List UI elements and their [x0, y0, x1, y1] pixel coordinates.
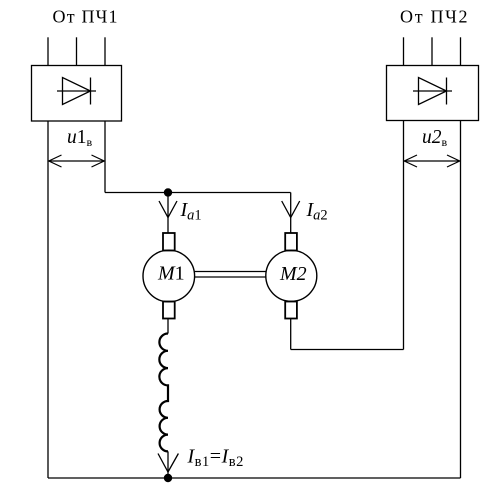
wire input UZ1 pin1	[47, 37, 49, 65]
wire UZ2 out right (to bottom bus)	[460, 121, 462, 479]
field winding L (coil)	[159, 334, 168, 452]
svg-text:M2: M2	[279, 263, 307, 285]
node junction dot bottom	[164, 474, 172, 482]
node junction dot	[164, 188, 172, 196]
arrow Iв	[158, 454, 178, 473]
svg-text:От ПЧ1: От ПЧ1	[53, 7, 119, 27]
wire M1 bottom to field winding	[167, 319, 169, 334]
wire input UZ2 pin1	[403, 37, 405, 65]
wire UZ1 out left (to bottom bus)	[47, 121, 49, 478]
wire input UZ2 pin2	[431, 37, 433, 65]
wire UZ1 out right	[104, 121, 106, 193]
wire UZ2 out left (to M2 loop)	[403, 121, 405, 350]
wire M2 bottom horizontal	[291, 349, 404, 351]
rectifier UZ2 box	[387, 66, 479, 121]
brush M1 bottom	[163, 302, 175, 319]
wire input UZ2 pin3	[460, 37, 462, 65]
wire input UZ1 pin3	[104, 37, 106, 65]
arrow Ia2	[282, 201, 300, 218]
wire to M1 armature	[167, 193, 169, 234]
wire to M2 armature	[290, 193, 292, 234]
diode D2	[413, 78, 452, 105]
dimension arrow u2	[404, 155, 459, 167]
svg-text:M1: M1	[157, 263, 185, 285]
wire M2 bottom down	[290, 319, 292, 350]
brush M2 top	[285, 233, 297, 251]
wire top bus to motors	[105, 192, 291, 194]
bottom bus wire	[48, 477, 461, 479]
rectifier UZ1 box	[32, 66, 122, 122]
diode D1	[57, 78, 96, 105]
motor M1	[143, 250, 195, 302]
brush M1 top	[163, 233, 175, 251]
arrow Ia1	[159, 201, 177, 218]
motor M2	[266, 250, 317, 301]
wire winding to bottom bus	[167, 451, 169, 478]
brush M2 bottom	[285, 302, 297, 319]
svg-text:От ПЧ2: От ПЧ2	[400, 7, 469, 27]
shaft coupling (double line)	[195, 271, 266, 273]
dimension arrow u1	[49, 155, 104, 167]
wire input UZ1 pin2	[76, 37, 78, 65]
